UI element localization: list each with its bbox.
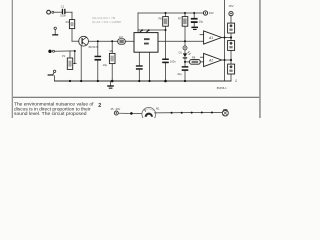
svg-text:100n: 100n xyxy=(60,13,66,17)
svg-text:15V: 15V xyxy=(209,11,214,15)
svg-text:P1: P1 xyxy=(62,54,66,58)
svg-text:10µ: 10µ xyxy=(177,72,182,76)
svg-text:BC547b: BC547b xyxy=(89,45,99,49)
svg-text:C1: C1 xyxy=(61,5,65,9)
svg-text:10µ: 10µ xyxy=(199,20,204,24)
svg-text:R5: R5 xyxy=(110,49,114,53)
svg-text:R1: R1 xyxy=(66,20,70,24)
svg-text:R8: R8 xyxy=(192,56,196,60)
svg-text:R6: R6 xyxy=(158,17,162,21)
svg-text:R7: R7 xyxy=(178,17,182,21)
svg-text:100n: 100n xyxy=(170,59,176,63)
svg-text:A2: A2 xyxy=(208,58,213,62)
svg-text:86456-1: 86456-1 xyxy=(217,86,227,90)
svg-text:M1: M1 xyxy=(156,107,160,111)
svg-text:D1: D1 xyxy=(179,51,183,55)
svg-text:25...30V: 25...30V xyxy=(111,107,121,111)
svg-text:2: 2 xyxy=(98,103,101,109)
svg-text:15V: 15V xyxy=(229,4,234,8)
svg-text:A1: A1 xyxy=(208,36,213,40)
svg-text:sound level. The circuit propo: sound level. The circuit proposed xyxy=(14,111,87,116)
svg-text:A1;A2 = IC4 = LM358: A1;A2 = IC4 = LM358 xyxy=(92,20,121,24)
svg-text:10µ: 10µ xyxy=(103,63,108,67)
